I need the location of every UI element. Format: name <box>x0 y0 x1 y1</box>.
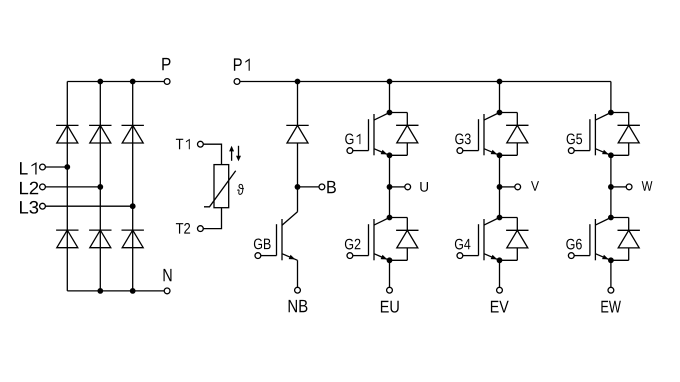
wire Q-G4 emitter to EV <box>499 260 501 287</box>
transistor Q-G2 (bottom, leg U) (IGBT) <box>353 218 390 261</box>
wire brake branch upper <box>297 82 299 126</box>
gate terminal G4 <box>457 253 463 259</box>
thermistor R-NTC body <box>214 165 229 208</box>
transistor Q-G4 (bottom, leg V) (IGBT) <box>463 218 500 261</box>
transistor QB (brake) (IGBT) <box>261 212 298 260</box>
junction Q-G5 (top, leg W) emitter <box>608 152 614 158</box>
diode D3 (rectifier top, phase L3) <box>122 125 144 143</box>
terminal EV <box>497 287 503 293</box>
junction Q-G3 (top, leg V) emitter <box>497 152 503 158</box>
junction P1 bus leg U <box>387 79 393 85</box>
terminal W <box>626 184 632 190</box>
wire Q-G5 emitter to Q-G6 collector <box>610 155 612 217</box>
label T1 <box>176 139 190 149</box>
junction P1 bus brake branch <box>295 79 301 85</box>
diode D4 (rectifier bottom, phase L1) <box>56 230 78 248</box>
wire T1 lead <box>203 144 221 164</box>
label EV <box>491 301 509 313</box>
transistor Q-G1 (top, leg U) (IGBT) <box>353 113 390 156</box>
wire L1 input <box>45 166 67 168</box>
junction N bus rail 2 <box>97 288 103 294</box>
wire rectifier N bus <box>67 290 164 292</box>
label B <box>327 181 336 193</box>
wire node W stub <box>611 186 626 188</box>
junction node V <box>497 184 503 190</box>
wire brake emitter to NB <box>297 260 299 287</box>
thermistor diagonal stroke <box>204 171 236 207</box>
junction Q-G6 (bottom, leg W) collector <box>608 215 614 221</box>
label G3 <box>455 133 471 144</box>
wire node B stub <box>298 186 319 188</box>
terminal L3 <box>40 203 46 209</box>
gate terminal G5 <box>568 148 574 154</box>
terminal B <box>319 184 325 190</box>
terminal NB <box>295 287 301 293</box>
label G4 <box>455 239 471 250</box>
junction node L2 <box>97 184 103 190</box>
diode D5 (rectifier bottom, phase L2) <box>89 230 111 248</box>
terminal EU <box>387 287 393 293</box>
label EW <box>601 301 621 313</box>
label GB <box>254 238 271 249</box>
terminal N <box>164 288 170 294</box>
thermistor down arrow <box>236 146 241 162</box>
label G2 <box>345 239 361 250</box>
junction node L1 <box>64 164 70 170</box>
label G6 <box>566 239 582 250</box>
wire Q-G2 emitter to EU <box>389 260 391 287</box>
junction Q-G3 (top, leg V) collector <box>497 110 503 116</box>
terminal EW <box>608 287 614 293</box>
label L3 <box>20 201 38 214</box>
label thermistor theta <box>237 184 244 195</box>
label P <box>162 58 170 70</box>
wire Q-G3 emitter to Q-G4 collector <box>499 155 501 217</box>
label EU <box>381 301 399 313</box>
junction node U <box>387 184 393 190</box>
gate terminal G3 <box>457 148 463 154</box>
wire T2 lead <box>203 208 221 229</box>
junction N bus rail 3 <box>130 288 136 294</box>
junction Q-G2 (bottom, leg U) emitter <box>387 257 393 263</box>
label G1 <box>345 133 360 144</box>
wire P1 bus <box>240 81 611 83</box>
thermistor up arrow <box>229 146 234 161</box>
wire Q-G1 emitter to Q-G2 collector <box>389 155 391 217</box>
freewheeling diode of Q-G3 (top, leg V) <box>500 113 529 156</box>
wire bus to Q-G1 collector <box>389 82 391 113</box>
wire rectifier P bus <box>67 81 164 83</box>
wire bus to Q-G3 collector <box>499 82 501 113</box>
junction P1 bus leg V <box>497 79 503 85</box>
wire Q-G6 emitter to EW <box>610 260 612 287</box>
label W <box>642 181 653 191</box>
terminal U <box>405 184 411 190</box>
transistor Q-G5 (top, leg W) (IGBT) <box>574 113 611 156</box>
diode D1 (rectifier top, phase L1) <box>56 125 78 143</box>
gate terminal G6 <box>568 253 574 259</box>
junction P bus rail 3 <box>130 79 136 85</box>
junction P bus rail 2 <box>97 79 103 85</box>
junction Q-G5 (top, leg W) collector <box>608 110 614 116</box>
gate terminal G2 <box>347 253 353 259</box>
junction Q-G1 (top, leg U) collector <box>387 110 393 116</box>
terminal T1 <box>198 141 204 147</box>
wire node B to brake IGBT collector <box>297 187 299 212</box>
terminal P1 <box>234 79 240 85</box>
junction Q-G2 (bottom, leg U) collector <box>387 215 393 221</box>
label V <box>531 181 539 191</box>
junction node W <box>608 184 614 190</box>
wire rectifier rail 3 <box>132 82 134 291</box>
label NB <box>289 300 308 312</box>
terminal L1 <box>40 164 46 170</box>
terminal P <box>164 79 170 85</box>
wire node V stub <box>500 186 515 188</box>
junction Q-G4 (bottom, leg V) collector <box>497 215 503 221</box>
wire rectifier rail 1 <box>66 82 68 291</box>
terminal V <box>515 184 521 190</box>
wire node U stub <box>390 186 405 188</box>
wire L3 input <box>45 205 132 207</box>
terminal L2 <box>40 184 46 190</box>
diode D2 (rectifier top, phase L2) <box>89 125 111 143</box>
label P1 <box>234 58 250 70</box>
freewheeling diode of Q-G1 (top, leg U) <box>390 113 419 156</box>
diode D6 (rectifier bottom, phase L3) <box>122 230 144 248</box>
gate terminal G1 <box>347 148 353 154</box>
freewheeling diode of Q-G6 (bottom, leg W) <box>611 218 640 261</box>
label L1 <box>20 162 37 174</box>
freewheeling diode of Q-G2 (bottom, leg U) <box>390 218 419 261</box>
wire brake diode to node B <box>297 143 299 187</box>
label L2 <box>20 182 38 195</box>
wire rectifier rail 2 <box>99 82 101 291</box>
gate terminal GB <box>255 253 261 259</box>
freewheeling diode of Q-G4 (bottom, leg V) <box>500 218 529 261</box>
freewheeling diode of Q-G5 (top, leg W) <box>611 113 640 156</box>
transistor Q-G3 (top, leg V) (IGBT) <box>463 113 500 156</box>
wire bus to Q-G5 collector <box>610 82 612 113</box>
terminal T2 <box>198 226 204 232</box>
junction Q-G1 (top, leg U) emitter <box>387 152 393 158</box>
transistor Q-G6 (bottom, leg W) (IGBT) <box>574 218 611 261</box>
diode D7 (brake) <box>286 125 308 143</box>
label T2 <box>176 223 190 234</box>
junction Q-G4 (bottom, leg V) emitter <box>497 257 503 263</box>
label G5 <box>567 133 583 144</box>
junction Q-G6 (bottom, leg W) emitter <box>608 257 614 263</box>
wire L2 input <box>45 186 100 188</box>
junction node B <box>295 184 301 190</box>
label U <box>420 182 428 192</box>
label N <box>164 269 172 281</box>
junction node L3 <box>130 203 136 209</box>
